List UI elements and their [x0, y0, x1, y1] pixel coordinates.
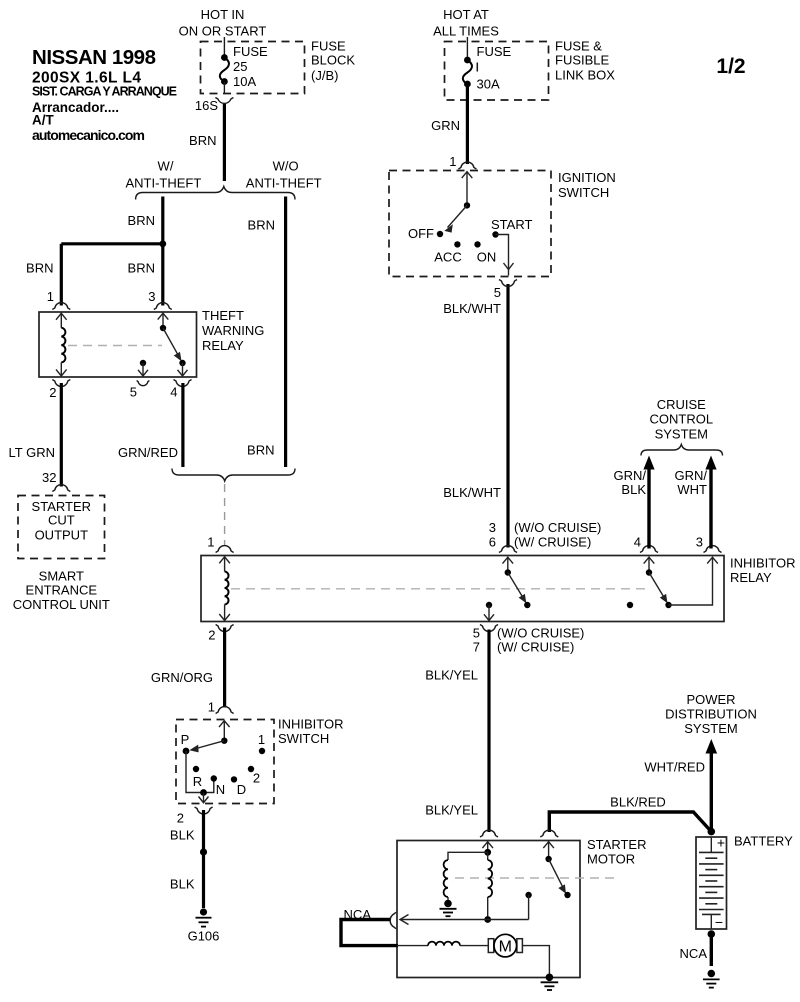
svg-text:WHT/RED: WHT/RED [644, 760, 705, 775]
wire BLK/RED starter to battery [549, 795, 711, 833]
svg-text:W/: W/ [158, 159, 174, 174]
inhibitor relay pin 1 [207, 535, 233, 553]
inhibitor relay pin 5/7 contact [484, 602, 494, 621]
svg-text:1/2: 1/2 [716, 55, 745, 78]
theft warning relay box [39, 312, 197, 377]
svg-text:WARNING: WARNING [202, 323, 264, 338]
ignition switch dashed box [389, 171, 551, 277]
title block [32, 46, 177, 143]
svg-text:WHT: WHT [677, 482, 707, 497]
svg-text:4: 4 [170, 385, 177, 400]
fuse &amp; fusible link box dashed [445, 42, 549, 101]
inhibitor switch pin 2 connector [177, 807, 213, 826]
wire WHT/RED arrow to power distribution [644, 739, 717, 832]
svg-text:BRN: BRN [247, 443, 274, 458]
svg-text:INHIBITOR: INHIBITOR [730, 556, 796, 571]
svg-text:GRN: GRN [431, 118, 460, 133]
svg-text:BRN: BRN [26, 261, 53, 276]
theft relay pin 5 connector [130, 381, 150, 400]
fuse FUSE 25 10A [220, 37, 268, 94]
theft relay pin 3 [148, 289, 172, 310]
svg-text:4: 4 [634, 535, 641, 550]
svg-text:BLK/WHT: BLK/WHT [443, 485, 501, 500]
brace cruise control system [641, 445, 723, 456]
svg-text:6: 6 [489, 535, 496, 550]
svg-text:FUSE: FUSE [311, 39, 346, 54]
svg-text:SYSTEM: SYSTEM [655, 427, 708, 442]
starter solenoid switch [543, 842, 570, 899]
motor M [488, 934, 522, 957]
inhibitor relay box [201, 556, 724, 622]
svg-text:(W/ CRUISE): (W/ CRUISE) [497, 640, 574, 655]
label CRUISE CONTROL SYSTEM [650, 397, 714, 442]
svg-text:2: 2 [208, 628, 215, 643]
label FUSE & FUSIBLE LINK BOX [555, 39, 615, 83]
svg-text:BRN: BRN [128, 213, 155, 228]
svg-text:(J/B): (J/B) [311, 68, 338, 83]
svg-text:RELAY: RELAY [730, 570, 772, 585]
svg-text:SWITCH: SWITCH [558, 185, 609, 200]
svg-text:3: 3 [148, 289, 155, 304]
svg-text:−: − [715, 914, 723, 930]
theft relay pin 1 [47, 289, 71, 310]
svg-text:1: 1 [449, 154, 456, 169]
label POWER DISTRIBUTION SYSTEM [665, 692, 757, 736]
svg-text:2: 2 [177, 811, 184, 826]
svg-text:ALL TIMES: ALL TIMES [433, 24, 499, 39]
svg-text:CUT: CUT [48, 513, 75, 528]
svg-text:3: 3 [696, 535, 703, 550]
wire BLK to ground [170, 810, 207, 908]
svg-text:SWITCH: SWITCH [278, 731, 329, 746]
starter hold-in coil [444, 852, 488, 903]
inhibitor relay switch cruise side [644, 557, 672, 608]
ground battery [703, 970, 720, 988]
inhibitor relay pin 2 connector [208, 625, 233, 643]
svg-text:BLK: BLK [170, 877, 195, 892]
starter pull-in coil [484, 852, 492, 923]
inhibitor relay coil [219, 557, 230, 621]
svg-text:GRN/RED: GRN/RED [118, 445, 178, 460]
NCA connector at starter box [344, 907, 396, 929]
svg-text:IGNITION: IGNITION [558, 170, 616, 185]
svg-text:G106: G106 [188, 929, 220, 944]
svg-text:FUSE: FUSE [233, 44, 268, 59]
svg-text:BLK: BLK [170, 828, 195, 843]
svg-text:R: R [193, 774, 202, 789]
inhibitor relay pin 4 connector [634, 535, 658, 553]
wire BLK/YEL inhibitor relay to starter [425, 630, 489, 833]
label W/ ANTI-THEFT [125, 159, 201, 191]
svg-text:HOT AT: HOT AT [443, 7, 489, 22]
wire BRN from fuse block to split [189, 104, 224, 181]
theft relay coil [56, 313, 67, 376]
svg-text:ENTRANCE: ENTRANCE [26, 583, 98, 598]
theft relay pin 2 [49, 380, 70, 401]
label FUSE BLOCK (J/B) [311, 39, 355, 84]
wire BRN right branch w/o anti-theft [247, 197, 286, 468]
theft relay pin 4 arrow [178, 363, 188, 376]
svg-text:START: START [491, 217, 532, 232]
wire battery negative NCA [680, 930, 716, 966]
svg-text:CONTROL UNIT: CONTROL UNIT [13, 597, 110, 612]
svg-text:MOTOR: MOTOR [587, 852, 635, 867]
svg-text:INHIBITOR: INHIBITOR [278, 717, 344, 732]
label INHIBITOR SWITCH [278, 717, 344, 747]
svg-text:1: 1 [208, 700, 215, 715]
battery [696, 828, 727, 930]
wire BLK/WHT ignition to inhibitor relay [443, 284, 508, 548]
svg-text:BRN: BRN [128, 261, 155, 276]
svg-text:M: M [499, 939, 512, 956]
svg-text:16S: 16S [195, 98, 218, 113]
svg-text:5: 5 [130, 385, 137, 400]
ground under hold-in coil [440, 900, 457, 917]
ignition switch pin 5 connector [494, 280, 517, 301]
inhibitor relay wire to pin 3 [669, 557, 718, 605]
wire GRN/RED from theft relay pin 4 [118, 383, 183, 467]
svg-text:5: 5 [473, 626, 480, 641]
starter motor pin 1 connector [480, 830, 498, 837]
inhibitor relay pin 5/7 connector [473, 625, 585, 655]
dashed merge wire [224, 484, 226, 546]
svg-text:HOT IN: HOT IN [201, 7, 245, 22]
svg-text:BLK/YEL: BLK/YEL [425, 668, 478, 683]
svg-text:BLK: BLK [621, 482, 646, 497]
wire LT GRN [9, 383, 62, 487]
starter motor centerline (dashed) [455, 877, 620, 879]
inhibitor relay pins 3/6 labels [489, 520, 602, 553]
svg-text:10A: 10A [233, 74, 256, 89]
svg-text:CRUISE: CRUISE [657, 397, 706, 412]
svg-text:A/T: A/T [32, 113, 55, 128]
label STARTER MOTOR [587, 837, 646, 867]
wire GRN/ORG [151, 628, 225, 708]
svg-text:SIST. CARGA Y ARRANQUE: SIST. CARGA Y ARRANQUE [32, 85, 177, 99]
svg-text:BRN: BRN [189, 133, 216, 148]
svg-text:(W/ CRUISE): (W/ CRUISE) [514, 535, 591, 550]
theft relay switch [158, 313, 186, 366]
svg-text:POWER: POWER [686, 692, 735, 707]
starter cut output dashed box [18, 496, 105, 559]
label THEFT WARNING RELAY [202, 308, 264, 353]
svg-text:W/O: W/O [273, 159, 299, 174]
svg-text:BLK/YEL: BLK/YEL [425, 803, 478, 818]
wire GRN/WHT arrow to cruise [675, 456, 717, 549]
svg-text:FUSE: FUSE [477, 44, 512, 59]
svg-text:LT GRN: LT GRN [9, 445, 55, 460]
wire motor to ground [522, 946, 549, 978]
svg-text:THEFT: THEFT [202, 308, 244, 323]
connector 16S [195, 98, 234, 114]
svg-text:FUSIBLE: FUSIBLE [555, 53, 610, 68]
svg-text:ANTI-THEFT: ANTI-THEFT [246, 176, 322, 191]
svg-text:SMART: SMART [39, 569, 84, 584]
inhibitor relay contact dot [627, 602, 633, 608]
fusible link FUSE 30A [463, 37, 512, 92]
svg-text:3: 3 [489, 520, 496, 535]
ignition switch internals [408, 172, 532, 276]
ground under motor [541, 974, 559, 991]
svg-text:25: 25 [233, 59, 247, 74]
inhibitor relay pin 3 connector (cruise) [696, 535, 722, 553]
svg-text:OFF: OFF [408, 226, 434, 241]
svg-text:P: P [181, 732, 190, 747]
svg-text:N: N [216, 782, 225, 797]
svg-text:NCA: NCA [680, 946, 708, 961]
brace merge to inhibitor relay [172, 469, 295, 482]
svg-text:1: 1 [47, 289, 54, 304]
svg-text:BATTERY: BATTERY [734, 834, 793, 849]
starter motor box [397, 841, 580, 978]
svg-text:NISSAN 1998: NISSAN 1998 [32, 46, 156, 69]
svg-text:2: 2 [49, 385, 56, 400]
svg-text:(W/O CRUISE): (W/O CRUISE) [514, 520, 601, 535]
svg-text:BRN: BRN [248, 218, 275, 233]
inhibitor switch internals [181, 721, 266, 803]
theft relay centerline (dashed) [68, 345, 162, 347]
svg-text:GRN/: GRN/ [675, 468, 708, 483]
svg-text:32: 32 [42, 470, 56, 485]
starter pin 1 arrow [482, 842, 493, 856]
starter motor pin 2 connector [540, 830, 558, 837]
label HOT IN ON OR START [179, 7, 267, 39]
svg-text:BLK/WHT: BLK/WHT [443, 301, 501, 316]
svg-text:OUTPUT: OUTPUT [35, 528, 89, 543]
svg-text:DISTRIBUTION: DISTRIBUTION [665, 707, 757, 722]
connector 32 smart ecu [52, 485, 70, 492]
svg-text:1: 1 [207, 535, 214, 550]
svg-text:1: 1 [258, 732, 265, 747]
label IGNITION SWITCH [558, 170, 616, 200]
svg-text:GRN/: GRN/ [614, 468, 647, 483]
wire NCA loop [341, 920, 398, 946]
svg-text:BLOCK: BLOCK [311, 53, 355, 68]
svg-text:SYSTEM: SYSTEM [684, 721, 737, 736]
label INHIBITOR RELAY [730, 556, 796, 586]
svg-text:BLK/RED: BLK/RED [610, 795, 666, 810]
svg-text:LINK BOX: LINK BOX [555, 68, 615, 83]
svg-text:RELAY: RELAY [202, 338, 244, 353]
svg-text:automecanico.com: automecanico.com [32, 127, 145, 143]
inhibitor relay centerline (dashed) [231, 588, 645, 590]
starter switch contact dot [525, 892, 531, 920]
inhibitor relay switch starter side [503, 557, 531, 608]
svg-text:(W/O CRUISE): (W/O CRUISE) [497, 626, 584, 641]
brace anti-theft split [136, 187, 295, 200]
fuse block J/B dashed box [201, 42, 305, 94]
svg-text:ON OR START: ON OR START [179, 24, 267, 39]
label HOT AT ALL TIMES [433, 7, 499, 39]
svg-text:ACC: ACC [434, 250, 461, 265]
label W/O ANTI-THEFT [246, 159, 322, 191]
wire GRN fuse to ignition [431, 84, 467, 169]
svg-text:7: 7 [473, 640, 480, 655]
theft relay pin 5 contact [138, 360, 148, 376]
ground G106 [188, 908, 220, 943]
wire GRN/BLK arrow to cruise [614, 456, 655, 549]
wire BRN left branch w/ anti-theft [26, 197, 166, 306]
svg-text:ON: ON [477, 250, 497, 265]
svg-text:CONTROL: CONTROL [650, 412, 714, 427]
ignition switch pin 1 connector [458, 162, 476, 169]
svg-text:ANTI-THEFT: ANTI-THEFT [125, 176, 201, 191]
svg-text:5: 5 [494, 285, 501, 300]
theft relay pin 4 connector [170, 380, 191, 400]
svg-text:D: D [237, 782, 246, 797]
wire to NCA connector [400, 915, 529, 925]
svg-text:30A: 30A [477, 77, 500, 92]
starter armature circuit [397, 942, 489, 946]
svg-text:GRN/ORG: GRN/ORG [151, 670, 213, 685]
svg-text:2: 2 [253, 771, 260, 786]
inhibitor switch pin 1 [208, 700, 234, 715]
inhibitor switch dashed box [176, 720, 274, 804]
svg-text:+: + [717, 835, 725, 851]
svg-text:STARTER: STARTER [587, 837, 646, 852]
label SMART ENTRANCE CONTROL UNIT [13, 569, 110, 613]
svg-text:FUSE &: FUSE & [555, 39, 602, 54]
